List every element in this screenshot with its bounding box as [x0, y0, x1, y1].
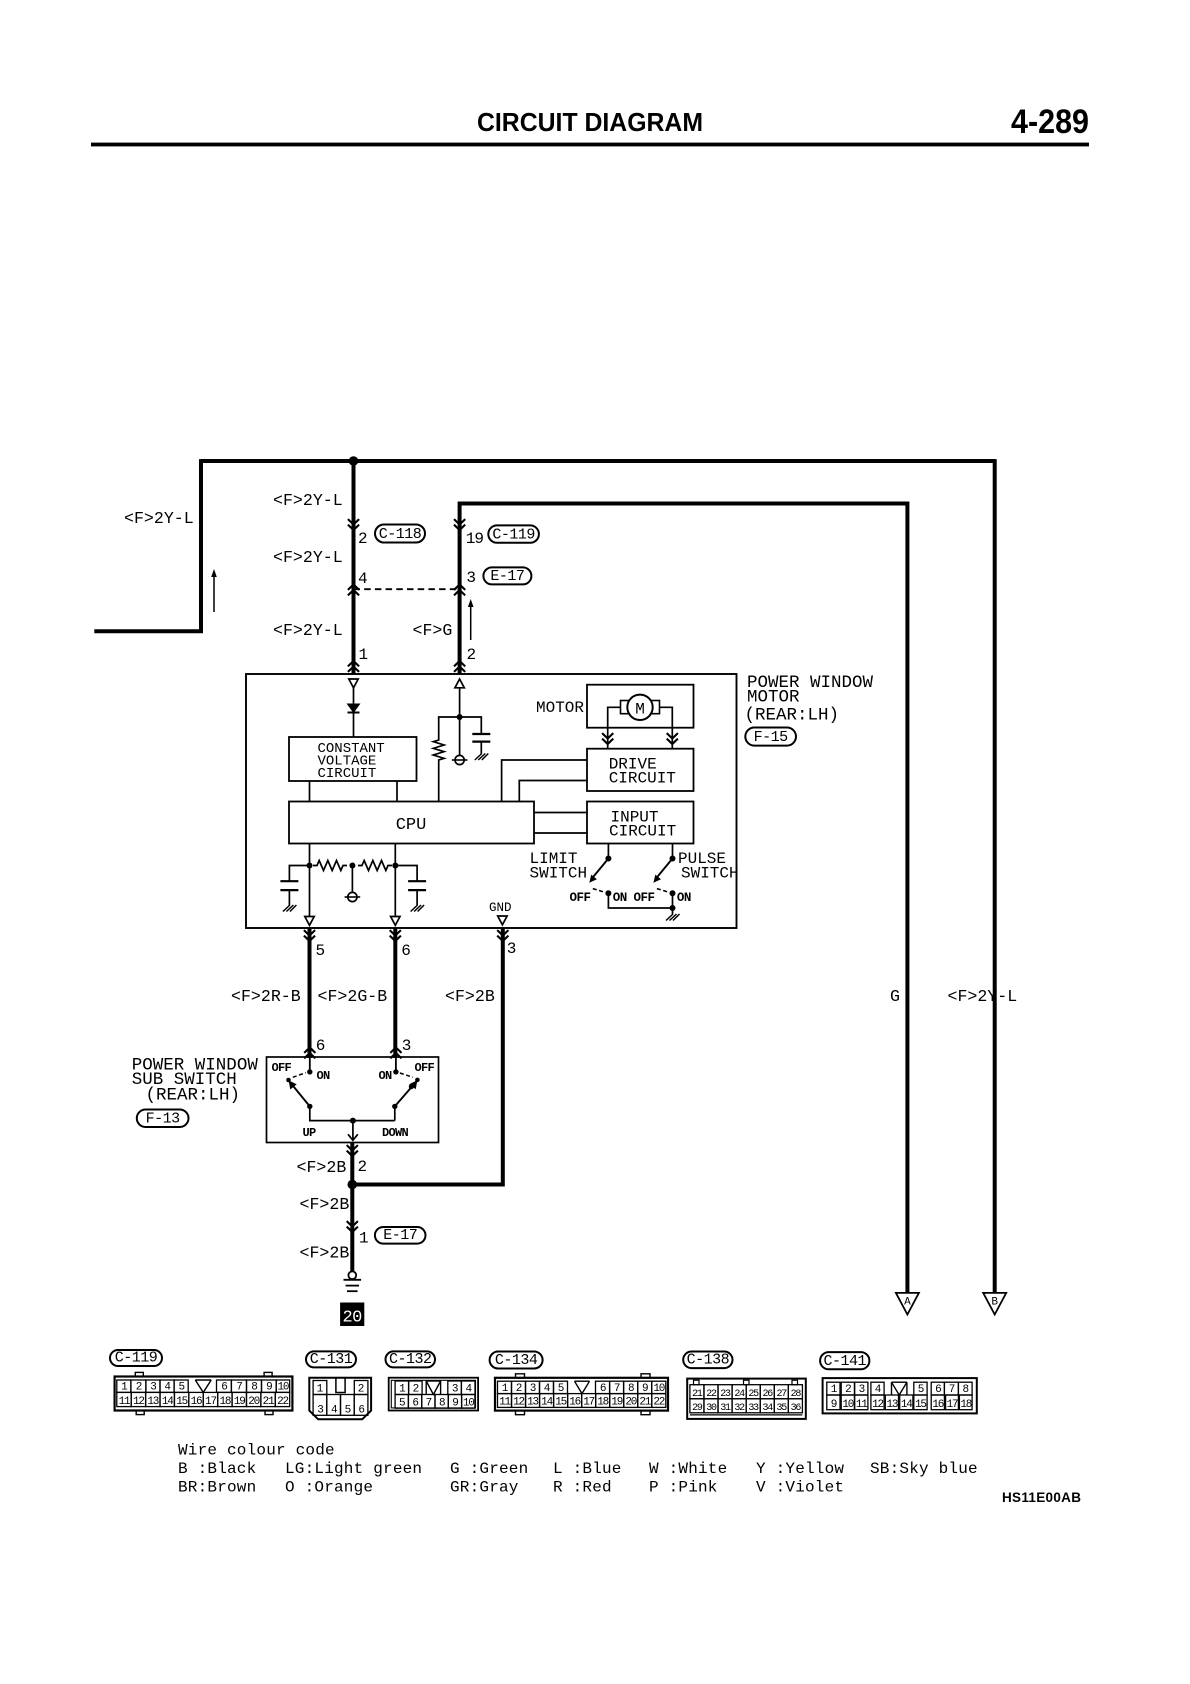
- svg-text:BR:Brown: BR:Brown: [178, 1479, 256, 1497]
- svg-text:C-118: C-118: [379, 526, 422, 543]
- node limit ON terminal: [605, 890, 611, 896]
- down switch blade: [395, 1084, 414, 1106]
- svg-text:10: 10: [463, 1397, 474, 1409]
- resistor R2: [313, 861, 347, 871]
- node left column: [307, 863, 313, 869]
- svg-text:22: 22: [653, 1397, 664, 1409]
- motor connector chevron pin 3: [497, 930, 508, 941]
- wire CVC to CPU left: [309, 781, 311, 802]
- svg-text:ON: ON: [613, 891, 627, 905]
- svg-text:MOTOR: MOTOR: [747, 688, 800, 708]
- svg-text:LG:Light green: LG:Light green: [285, 1460, 422, 1478]
- svg-text:1: 1: [359, 1230, 368, 1248]
- wire CVC to CPU right: [396, 781, 398, 802]
- svg-text:19: 19: [466, 530, 484, 548]
- svg-text:HS11E00AB: HS11E00AB: [1002, 1490, 1081, 1505]
- pin 6 exit triangle: [391, 917, 400, 926]
- connector E-17 crossing chevron, pin 3: [454, 585, 465, 596]
- svg-text:13: 13: [886, 1399, 897, 1411]
- svg-text:C-131: C-131: [310, 1351, 353, 1368]
- node right column: [392, 863, 398, 869]
- svg-text:34: 34: [762, 1403, 773, 1414]
- svg-text:4: 4: [358, 570, 367, 588]
- chassis ground at C1: [475, 754, 482, 761]
- svg-text:3: 3: [507, 940, 516, 958]
- svg-text:C-138: C-138: [687, 1352, 730, 1369]
- up switch dashed throw: [293, 1073, 306, 1078]
- drive circuit box: [587, 749, 694, 791]
- node pulse switch pole: [670, 856, 676, 862]
- wire: pin5 output to sub switch: [308, 928, 312, 1058]
- svg-text:18: 18: [960, 1399, 971, 1411]
- connector ref label C-131 chart: [306, 1351, 356, 1368]
- node pulse ON terminal: [670, 890, 676, 896]
- limit switch dashed throw: [593, 889, 605, 893]
- svg-text:G :Green: G :Green: [450, 1460, 528, 1478]
- svg-text:SWITCH: SWITCH: [681, 865, 739, 883]
- wire sub output with arrow: [352, 1121, 354, 1141]
- pin 2 entry triangle: [455, 679, 464, 688]
- pin 1 entry triangle: [349, 679, 358, 688]
- destination triangle B: [983, 1293, 1006, 1315]
- wire: battery feed top horizontal: [201, 459, 995, 463]
- legend: wire colour code: [178, 1442, 978, 1497]
- svg-text:17: 17: [583, 1397, 594, 1409]
- ground reference tag 20: [340, 1303, 364, 1328]
- svg-text:8: 8: [439, 1397, 445, 1409]
- connector C-141 pin chart: [823, 1378, 977, 1413]
- svg-text:(REAR:LH): (REAR:LH): [146, 1086, 241, 1106]
- svg-text:12: 12: [513, 1397, 524, 1409]
- svg-text:22: 22: [277, 1396, 288, 1408]
- header rule: [91, 143, 1089, 147]
- label LIMIT SWITCH: [530, 850, 588, 883]
- wire CPU to drive circuit upper: [502, 760, 587, 802]
- wire to capacitor C2: [289, 866, 309, 882]
- svg-text:14: 14: [541, 1397, 553, 1409]
- chassis ground at C2: [283, 905, 290, 912]
- svg-text:17: 17: [205, 1396, 216, 1408]
- motor connector chevron pin 2: [454, 661, 465, 672]
- svg-text:12: 12: [872, 1399, 883, 1411]
- svg-text:OFF: OFF: [634, 891, 655, 905]
- wire mid node to terminal circle: [351, 866, 353, 893]
- node: junction on top feed: [349, 456, 359, 466]
- power window motor unit outline F-15: [246, 674, 737, 928]
- wire CPU ground left column: [309, 844, 311, 917]
- wire B vertical drop to triangle B: [993, 459, 997, 1292]
- flow arrow on left branch: [213, 575, 215, 612]
- wire diode to constant voltage circuit: [353, 713, 355, 738]
- svg-text:4-289: 4-289: [1011, 103, 1089, 141]
- svg-text:<F>2Y-L: <F>2Y-L: [273, 548, 343, 567]
- svg-text:1: 1: [359, 646, 368, 664]
- svg-text:OFF: OFF: [415, 1061, 435, 1075]
- node switch ground: [670, 905, 676, 911]
- svg-text:6: 6: [401, 942, 410, 960]
- wire: left branch from junction down and to page edge: [94, 459, 201, 631]
- svg-text:20: 20: [625, 1397, 636, 1409]
- wire to capacitor C3: [395, 866, 417, 882]
- terminal circle symbol 2: [348, 892, 357, 901]
- power window sub switch outline F-13: [267, 1057, 439, 1143]
- svg-text:W :White: W :White: [649, 1460, 727, 1478]
- flow arrow beside (F)G wire: [470, 605, 472, 640]
- label POWER WINDOW MOTOR (REAR:LH): [745, 673, 874, 726]
- svg-text:C-119: C-119: [115, 1350, 158, 1367]
- svg-text:F-15: F-15: [754, 729, 789, 746]
- chevron motor wire left: [602, 733, 613, 744]
- wire input circuit to limit switch: [607, 844, 609, 859]
- connector ref label C-134 chart: [490, 1352, 543, 1370]
- svg-text:GR:Gray: GR:Gray: [450, 1479, 519, 1497]
- svg-text:F-13: F-13: [146, 1111, 181, 1128]
- svg-text:<F>2G-B: <F>2G-B: [318, 987, 388, 1006]
- svg-text:20: 20: [342, 1309, 362, 1328]
- connector ref label C-141 chart: [820, 1352, 869, 1370]
- wire: pin2 signal vertical (F)G and wire A horizontal: [460, 504, 908, 1293]
- svg-text:ON: ON: [379, 1069, 393, 1083]
- connector C-134 pin chart: [495, 1374, 668, 1415]
- wire switch commons to ground: [608, 893, 672, 914]
- svg-text:<F>2Y-L: <F>2Y-L: [948, 987, 1018, 1006]
- svg-text:3: 3: [317, 1405, 323, 1417]
- svg-text:Wire colour code: Wire colour code: [178, 1442, 335, 1460]
- svg-text:O :Orange: O :Orange: [285, 1479, 373, 1497]
- connector ref F-13: [137, 1110, 189, 1128]
- svg-text:P :Pink: P :Pink: [649, 1479, 718, 1497]
- svg-text:C-119: C-119: [492, 526, 535, 543]
- svg-text:16: 16: [569, 1397, 580, 1409]
- connector C-119 crossing chevron, pin 19: [454, 519, 465, 530]
- svg-text:5: 5: [316, 942, 325, 960]
- wire: pin6 output to sub switch: [393, 928, 397, 1058]
- svg-text:5: 5: [345, 1405, 351, 1417]
- wire: dashed link pin4 to pin3 (E-17): [354, 588, 460, 590]
- svg-text:33: 33: [748, 1403, 759, 1414]
- svg-text:CPU: CPU: [396, 816, 427, 835]
- node: ground junction: [348, 1180, 358, 1190]
- svg-text:9: 9: [831, 1399, 837, 1411]
- wire resistor to CPU: [438, 763, 440, 802]
- svg-text:E-17: E-17: [490, 568, 524, 585]
- node sub switch output: [350, 1118, 356, 1124]
- svg-text:30: 30: [706, 1403, 717, 1414]
- sub switch chevron pin 3: [390, 1048, 401, 1059]
- svg-text:15: 15: [915, 1399, 926, 1411]
- svg-text:10: 10: [842, 1399, 853, 1411]
- wire input circuit to pulse switch: [672, 844, 674, 859]
- CPU box: [289, 802, 534, 844]
- svg-text:16: 16: [191, 1396, 202, 1408]
- svg-text:UP: UP: [303, 1126, 317, 1140]
- motor connector chevron pin 6: [390, 930, 401, 941]
- svg-text:SWITCH: SWITCH: [530, 865, 588, 883]
- svg-text:21: 21: [263, 1396, 275, 1408]
- sub switch output chevron pin 2: [347, 1145, 358, 1156]
- pin 5 exit triangle: [305, 917, 314, 926]
- destination triangle A: [896, 1293, 919, 1315]
- svg-text:11: 11: [499, 1397, 511, 1409]
- node up pivot: [307, 1104, 312, 1109]
- svg-text:2: 2: [467, 646, 476, 664]
- svg-text:7: 7: [426, 1397, 432, 1409]
- svg-text:G: G: [890, 987, 900, 1006]
- svg-text:ON: ON: [317, 1069, 331, 1083]
- svg-text:18: 18: [219, 1396, 230, 1408]
- svg-text:A: A: [904, 1297, 911, 1309]
- up switch blade: [292, 1084, 310, 1106]
- svg-text:15: 15: [176, 1396, 187, 1408]
- terminal circle symbol: [455, 755, 464, 764]
- svg-text:<F>2R-B: <F>2R-B: [231, 987, 301, 1006]
- svg-text:3: 3: [466, 569, 475, 587]
- svg-text:E-17: E-17: [383, 1227, 417, 1244]
- svg-text:14: 14: [162, 1396, 174, 1408]
- svg-text:<F>2B: <F>2B: [300, 1244, 350, 1263]
- node limit switch pole: [605, 856, 611, 862]
- down switch dashed throw: [400, 1073, 413, 1077]
- svg-text:14: 14: [901, 1399, 913, 1411]
- motor M symbol with terminals: [621, 695, 660, 720]
- capacitor C1: [472, 733, 490, 735]
- svg-text:5: 5: [399, 1397, 405, 1409]
- svg-text:31: 31: [720, 1403, 731, 1414]
- svg-text:6: 6: [358, 1405, 364, 1417]
- wire capacitor to ground: [480, 742, 482, 754]
- svg-text:C-134: C-134: [495, 1352, 538, 1369]
- svg-text:R :Red: R :Red: [553, 1479, 612, 1497]
- chevron motor wire right: [667, 733, 678, 744]
- connector C-138 pin chart: [687, 1379, 806, 1419]
- connector C-119 pin chart: [115, 1372, 293, 1414]
- connector ref label C-132 chart: [386, 1351, 436, 1368]
- svg-text:GND: GND: [489, 901, 512, 915]
- sub switch chevron pin 6: [304, 1048, 315, 1059]
- svg-text:9: 9: [452, 1397, 458, 1409]
- svg-text:2: 2: [358, 1158, 367, 1176]
- svg-text:<F>2B: <F>2B: [445, 987, 495, 1006]
- svg-text:CIRCUIT: CIRCUIT: [318, 766, 377, 782]
- svg-text:<F>2Y-L: <F>2Y-L: [273, 491, 343, 510]
- svg-text:13: 13: [527, 1397, 538, 1409]
- node down ON terminal: [393, 1069, 398, 1074]
- svg-text:6: 6: [316, 1037, 325, 1055]
- pulse switch blade: [657, 859, 673, 878]
- resistor R1 (pull): [433, 737, 444, 763]
- earth ground symbol: [344, 1271, 362, 1291]
- svg-text:16: 16: [932, 1399, 943, 1411]
- svg-text:MOTOR: MOTOR: [536, 699, 584, 717]
- svg-text:OFF: OFF: [570, 891, 591, 905]
- connector ref E-17 lower: [375, 1227, 426, 1244]
- svg-text:ON: ON: [677, 891, 691, 905]
- connector ref C-118: [375, 525, 425, 544]
- svg-text:DOWN: DOWN: [382, 1126, 409, 1140]
- svg-text:<F>2B: <F>2B: [300, 1195, 350, 1214]
- svg-text:11: 11: [119, 1396, 131, 1408]
- chassis ground at switches: [666, 914, 673, 921]
- svg-text:18: 18: [597, 1397, 608, 1409]
- svg-text:L :Blue: L :Blue: [553, 1460, 622, 1478]
- wire CPU to input circuit upper: [534, 812, 587, 814]
- svg-text:CIRCUIT: CIRCUIT: [609, 823, 676, 841]
- svg-text:C-141: C-141: [823, 1353, 866, 1370]
- node down pivot: [392, 1104, 397, 1109]
- connector C-118 crossing chevron, pin 2: [348, 519, 359, 530]
- wire CPU to input circuit lower: [534, 832, 587, 834]
- svg-text:11: 11: [856, 1399, 868, 1411]
- svg-text:OFF: OFF: [272, 1061, 292, 1075]
- diode D1: [348, 704, 360, 712]
- svg-text:2: 2: [358, 530, 367, 548]
- svg-text:12: 12: [133, 1396, 144, 1408]
- connector ref F-15: [745, 728, 796, 747]
- connector C-132 pin chart: [389, 1378, 478, 1411]
- svg-text:15: 15: [555, 1397, 566, 1409]
- connector E-17 crossing chevron, pin 4: [348, 585, 359, 596]
- connector C-131 pin chart: [309, 1378, 371, 1420]
- label PULSE SWITCH: [678, 850, 739, 883]
- connector ref E-17: [483, 567, 531, 585]
- wire node to terminal circle: [459, 717, 461, 756]
- wire C2 to ground: [288, 890, 290, 905]
- wire: sub switch output to ground: [350, 1143, 354, 1272]
- svg-text:6: 6: [412, 1397, 418, 1409]
- connector ref C-119: [488, 525, 539, 543]
- svg-text:32: 32: [734, 1403, 745, 1414]
- capacitor C2: [280, 880, 298, 882]
- wire pin2 down to node: [459, 688, 461, 717]
- node mid divider: [349, 863, 355, 869]
- svg-text:V :Violet: V :Violet: [756, 1479, 844, 1497]
- wire C3 to ground: [416, 890, 418, 905]
- node pin2 branch: [457, 714, 463, 720]
- wire motor right terminal to drive circuit: [660, 707, 673, 748]
- svg-text:B :Black: B :Black: [178, 1460, 256, 1478]
- svg-text:(REAR:LH): (REAR:LH): [745, 706, 840, 726]
- label POWER WINDOW SUB SWITCH (REAR:LH): [132, 1056, 259, 1106]
- connector E-17 crossing chevron, pin 1: [347, 1221, 358, 1232]
- wire pin1 to diode: [353, 688, 355, 704]
- svg-text:<F>2B: <F>2B: [297, 1158, 347, 1177]
- svg-text:19: 19: [234, 1396, 245, 1408]
- wire: pin3 ground run down and left to main ground node: [354, 928, 503, 1185]
- pin 3 exit triangle: [498, 916, 507, 925]
- wire sub switch commons: [310, 1106, 395, 1120]
- node up ON terminal: [307, 1069, 312, 1074]
- svg-text:<F>2Y-L: <F>2Y-L: [273, 621, 343, 640]
- wire: pin1 feed vertical (F)2Y-L: [352, 461, 356, 674]
- svg-text:C-132: C-132: [389, 1351, 432, 1368]
- svg-text:13: 13: [147, 1396, 158, 1408]
- wire CPU ground right column: [394, 844, 396, 917]
- limit switch blade: [593, 859, 609, 878]
- motor connector chevron pin 5: [304, 930, 315, 941]
- wire CPU to drive circuit lower: [519, 781, 587, 802]
- svg-text:36: 36: [791, 1403, 802, 1414]
- connector ref label C-138 chart: [683, 1352, 732, 1369]
- svg-text:17: 17: [947, 1399, 958, 1411]
- svg-text:CIRCUIT DIAGRAM: CIRCUIT DIAGRAM: [477, 107, 703, 137]
- resistor R3: [358, 861, 392, 871]
- svg-text:<F>G: <F>G: [413, 621, 453, 640]
- motor connector chevron pin 1: [348, 661, 359, 672]
- svg-text:35: 35: [777, 1403, 788, 1414]
- motor enclosure box: [587, 685, 694, 728]
- svg-text:21: 21: [639, 1397, 651, 1409]
- capacitor C3: [408, 880, 426, 882]
- svg-text:CIRCUIT: CIRCUIT: [609, 770, 676, 788]
- chassis ground at C3: [411, 905, 418, 912]
- input circuit box: [587, 802, 694, 844]
- svg-text:<F>2Y-L: <F>2Y-L: [124, 509, 194, 528]
- wire node to resistor and capacitor branches: [439, 717, 482, 737]
- svg-text:Y :Yellow: Y :Yellow: [756, 1460, 844, 1478]
- svg-text:M: M: [635, 701, 645, 719]
- connector ref label C-119 chart: [110, 1350, 162, 1367]
- constant voltage circuit box: [289, 737, 417, 781]
- wire motor left terminal to drive circuit: [608, 707, 621, 748]
- svg-text:B: B: [991, 1297, 998, 1309]
- svg-text:SB:Sky blue: SB:Sky blue: [870, 1460, 978, 1478]
- svg-text:3: 3: [402, 1037, 411, 1055]
- svg-text:29: 29: [692, 1403, 703, 1414]
- pulse switch dashed throw: [657, 889, 669, 893]
- svg-text:19: 19: [611, 1397, 622, 1409]
- svg-text:20: 20: [248, 1396, 259, 1408]
